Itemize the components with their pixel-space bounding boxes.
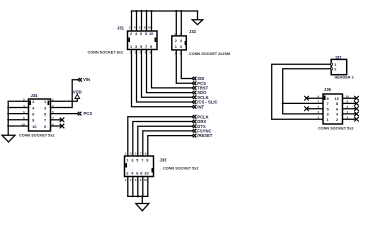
net label SCLK — [192, 95, 209, 100]
svg-text:5: 5 — [135, 152, 137, 156]
svg-text:CONN SOCKET 5x2: CONN SOCKET 5x2 — [318, 126, 353, 130]
svg-text:J33: J33 — [160, 158, 168, 163]
wire: bottom ground bus — [128, 195, 148, 197]
wire: net /CS-SLIC from J31 pin — [137, 50, 192, 103]
no-connect X on J36 pin10 — [354, 96, 359, 101]
no-connect X on J36 pin2 — [354, 117, 359, 122]
svg-text:7: 7 — [141, 158, 143, 163]
wire: header pin2 to J36 pin3 — [283, 69, 331, 114]
svg-text:2: 2 — [129, 25, 131, 29]
wire: net SDO from J31 pin — [147, 50, 192, 93]
svg-text:1: 1 — [125, 152, 127, 156]
net label DTX — [192, 124, 206, 129]
wire: J36 pin5 no-connect stub — [307, 108, 323, 110]
ground symbol (top right) — [192, 20, 203, 25]
svg-text:10: 10 — [346, 94, 350, 98]
svg-text:3: 3 — [318, 110, 320, 114]
no-connect X on J36 pin6 — [354, 106, 359, 111]
svg-text:J34: J34 — [31, 93, 39, 98]
svg-text:10: 10 — [144, 178, 148, 182]
svg-text:J31: J31 — [117, 26, 125, 31]
svg-text:10: 10 — [32, 124, 36, 129]
svg-text:1: 1 — [318, 115, 320, 119]
no-connect X on J36 pin9 — [304, 96, 309, 101]
connector J34 — [29, 99, 51, 131]
wire: net DRX to J33 pin — [133, 122, 192, 157]
svg-text:CONN SOCKET 8x2: CONN SOCKET 8x2 — [88, 50, 123, 54]
connector J31 — [128, 31, 158, 50]
net label VIN — [78, 77, 90, 82]
wire: stub to top-right ground — [197, 11, 199, 20]
svg-text:7: 7 — [140, 152, 142, 156]
wire: net PCS from J32 pin — [176, 51, 191, 84]
net label INT — [192, 104, 204, 109]
svg-text:HEADER 2: HEADER 2 — [335, 75, 354, 79]
net label PCLK — [192, 114, 209, 119]
svg-text:7: 7 — [145, 44, 147, 49]
svg-text:VIN: VIN — [83, 77, 90, 82]
ground symbol (bottom left) — [2, 135, 15, 142]
ground symbol (bottom middle) — [136, 204, 149, 211]
wire: J34 pin5 to PCS — [51, 113, 78, 115]
svg-text:4: 4 — [130, 178, 132, 182]
wire: net FSYNC to J33 pin — [143, 131, 192, 156]
wire: J34 pin3 to VIN — [51, 80, 78, 108]
no-connect X on J34 pin9 — [60, 124, 65, 129]
wire: J33 bottom pins to ground bus — [128, 177, 148, 197]
no-connect X on J34 pin7 — [60, 118, 65, 123]
net label DRX — [192, 119, 206, 124]
connector J33 — [125, 156, 154, 177]
svg-text:2: 2 — [347, 115, 349, 119]
svg-text:8: 8 — [144, 25, 146, 29]
svg-text:9: 9 — [145, 152, 147, 156]
net label /CS-SLIC — [192, 100, 217, 105]
wire: top ground bus — [132, 10, 198, 12]
wire: net DTX to J33 pin — [138, 126, 192, 156]
svg-text:VDD: VDD — [73, 90, 82, 95]
net label FSYNC — [192, 129, 211, 134]
wire: net PCLK to J33 pin — [128, 117, 192, 156]
svg-text:CONN SOCKET 2x2SM: CONN SOCKET 2x2SM — [189, 52, 230, 56]
svg-text:10: 10 — [147, 25, 151, 29]
net label PCS (left) — [77, 111, 92, 116]
no-connect X on J36 pin8 — [354, 101, 359, 106]
no-connect X on J36 pin5 — [304, 106, 309, 111]
svg-text:CONN SOCKET 5x2: CONN SOCKET 5x2 — [163, 166, 198, 170]
wire: J36 right pin stubs — [343, 98, 357, 119]
svg-text:J37: J37 — [335, 55, 343, 60]
svg-text:4: 4 — [134, 25, 136, 29]
svg-text:9: 9 — [318, 94, 320, 98]
power symbol VDD — [73, 90, 82, 99]
svg-text:7: 7 — [318, 100, 320, 104]
svg-text:PCS: PCS — [84, 111, 93, 116]
net label PCS — [192, 81, 206, 86]
wire: left ground bus — [7, 101, 9, 135]
svg-text:J32: J32 — [189, 29, 197, 34]
junction dots on top bus — [136, 10, 183, 12]
net label SDO — [192, 90, 207, 95]
header J37 — [331, 59, 347, 74]
wire: J31 pin stubs to top bus — [132, 11, 152, 31]
wire: net INT from J31 pin — [132, 50, 192, 107]
connector J32 — [172, 36, 187, 50]
svg-text:8: 8 — [347, 100, 349, 104]
svg-text:6: 6 — [347, 105, 349, 109]
wire: J34 left pins to ground bus — [8, 101, 28, 126]
wire: J36 pin9 no-connect stub — [307, 97, 323, 99]
net label /RESET — [192, 133, 213, 138]
wire: net SCLK from J31 pin — [142, 50, 192, 98]
svg-text:3: 3 — [130, 152, 132, 156]
svg-text:8: 8 — [140, 178, 142, 182]
svg-text:4: 4 — [180, 32, 182, 36]
svg-text:6: 6 — [139, 25, 141, 29]
svg-text:7: 7 — [44, 118, 46, 123]
svg-text:4: 4 — [347, 110, 349, 114]
svg-text:/RESET: /RESET — [197, 133, 213, 138]
svg-text:5: 5 — [318, 105, 320, 109]
wire: net SDI from J32 pin — [181, 51, 191, 79]
wire: stub to bottom ground — [141, 196, 143, 203]
net label SDI — [192, 76, 204, 81]
wire: net /RESET to J33 pin — [148, 136, 192, 156]
svg-text:INT: INT — [197, 104, 204, 109]
svg-text:10: 10 — [144, 171, 148, 176]
svg-text:J36: J36 — [324, 87, 332, 92]
junction dots on left ground bus — [7, 107, 9, 128]
wire: J36 pin7 branch — [283, 102, 323, 104]
svg-text:CONN SOCKET 5x2: CONN SOCKET 5x2 — [19, 134, 54, 138]
svg-text:6: 6 — [135, 178, 137, 182]
wire: net TRST from J31 pin — [152, 50, 192, 88]
svg-text:2: 2 — [175, 32, 177, 36]
net label TRST — [192, 86, 208, 91]
junction dots on bottom ground bus — [132, 195, 144, 197]
connector J36 — [323, 94, 343, 124]
wire: J32 pin stubs to top bus — [176, 11, 181, 37]
svg-text:10: 10 — [149, 31, 153, 36]
wire: J34 pin7 no-connect stub — [51, 119, 63, 121]
junction dot on J36 pin7 branch — [282, 102, 284, 104]
wire: J34 pin1 to VDD — [51, 99, 78, 102]
wire: J34 pin9 no-connect stub — [51, 125, 63, 127]
wire: header pin1 to J36 pin1 — [272, 64, 331, 119]
svg-text:2: 2 — [125, 178, 127, 182]
no-connect X on J36 pin4 — [354, 112, 359, 117]
